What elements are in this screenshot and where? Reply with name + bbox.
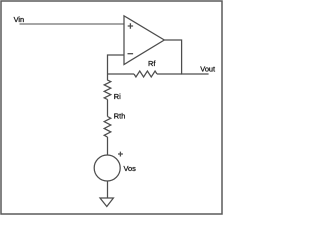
svg-text:Rf: Rf <box>148 59 156 68</box>
resistor Rth <box>104 117 111 138</box>
ground <box>100 198 113 207</box>
wire output <box>164 40 208 74</box>
wire Vos to ground <box>107 181 109 198</box>
wire Vin input <box>20 23 124 25</box>
wire node to Rf <box>108 73 135 75</box>
resistor Rf <box>134 71 157 77</box>
resistor Ri <box>104 74 111 100</box>
svg-text:Rth: Rth <box>114 111 126 120</box>
wire Ri to Rth <box>107 100 109 117</box>
op-amp U1 <box>124 16 164 65</box>
svg-text:Vos: Vos <box>124 164 137 173</box>
svg-text:Vout: Vout <box>200 65 215 74</box>
voltage source Vos <box>94 155 120 181</box>
polarity plus <box>118 152 123 157</box>
svg-text:Vin: Vin <box>14 15 25 24</box>
wire inverting input <box>108 55 124 74</box>
wire Rth to Vos <box>107 137 109 155</box>
wire Rf to output node <box>157 73 182 75</box>
svg-text:Ri: Ri <box>114 92 121 101</box>
